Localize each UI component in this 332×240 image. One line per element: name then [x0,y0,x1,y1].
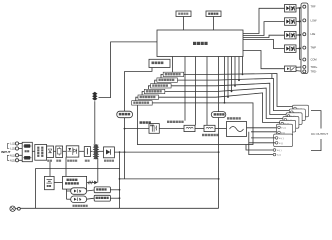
wire to group7 V+ [251,137,275,139]
current detect label [167,121,184,123]
DC output group 5 box [289,109,305,121]
input terminal N(1) [10,153,22,157]
transformer T1 secondary [97,145,98,159]
overvoltage detect label #2 [138,95,159,99]
switch box SW1 [176,11,191,17]
input terminal L(1) [10,142,22,146]
svg-text:V+( ): V+( ) [279,138,284,140]
fuse box F1 [22,142,32,161]
earth ground symbol [10,206,15,211]
DC OUTPUT label [311,132,328,136]
wire B to C [54,150,56,152]
staircase connector 2 [136,97,138,103]
aux supply vertical line [124,71,126,111]
DC output group 3 terminals [284,119,292,127]
photocoupler PC2 [285,18,297,26]
staircase connector 6 [161,74,163,80]
svg-text:L(1): L(1) [10,142,15,146]
wire PC4 to TMP terminal [296,47,304,50]
output filter label [227,117,241,119]
svg-text:V-( ): V-( ) [277,155,281,157]
COM bus junction 4 [299,48,301,50]
svg-text:DC OUTPUT: DC OUTPUT [311,132,328,136]
wire to pc1 [67,190,71,192]
run display box [149,59,170,67]
wire converter to choke1 [159,128,184,130]
label TRD- [311,69,317,73]
terminal TMP [303,46,306,49]
DC output group 6 terminals [294,107,302,115]
wire choke2 to output filter [215,128,227,130]
photocoupler PC7 [71,196,87,203]
aux supply line below box [124,118,126,129]
overvoltage detect wire #4 [171,83,286,114]
label under C [56,160,61,162]
wire PC2 to LOW terminal [296,21,304,22]
staircase connector 4 [148,86,150,92]
junction pin 9 [234,85,236,87]
DC output group 7 box [274,134,293,147]
rectifier box B [47,146,54,158]
label COM [311,58,317,62]
label under E [85,160,90,162]
control box pin 9 [234,57,236,86]
overvoltage detect label #6 [163,72,184,76]
staircase connector 5 [155,80,157,86]
wire D to E [79,150,85,152]
wire control to PC5 TRD [243,51,285,69]
wire vdet to enclosure edge [110,189,119,191]
wire ovdet to enclosure edge [110,197,119,199]
photocoupler PC3 [285,31,297,39]
rectifier output bus [114,151,218,153]
control box pin 5 [218,57,220,209]
drive output arrow [87,181,98,185]
wire from control box top to switch box [183,17,185,31]
DC output group 5 terminals [291,111,299,119]
label TRF [311,5,316,9]
open terminal pair bracket [246,143,273,155]
junction bus at rail line [218,151,220,153]
junction pin 7 [227,96,229,98]
wire from control box top to display box [213,17,215,31]
wire transformer aux to arrow [97,159,99,183]
transformer T1 core [95,144,96,159]
overvoltage detect box 2 [94,195,110,201]
drive circuit box [63,176,87,189]
junction pin 11 [242,74,244,76]
DC OUTPUT bracket top [311,111,321,129]
wire transformer to rectifier G [98,150,103,152]
wire to group7 V- [249,132,275,143]
photocoupler PC4 [285,45,297,53]
staircase connector 1 [132,102,138,104]
control box pin 7 [227,57,229,98]
overvoltage detect label #3 [144,89,165,93]
junction enclosure [119,189,121,199]
input terminal L(2) [10,147,22,151]
battery charge feed [119,151,121,168]
stabilizer label [140,121,151,124]
input pair bracket L [7,144,9,149]
DC output group 6 box [293,105,309,117]
converter symbol [150,125,156,132]
surge arrester Z1 [92,92,97,101]
wire drive to photocouplers [66,189,68,199]
wire control box left to arrester [99,42,158,98]
svg-text:TRD-: TRD- [311,69,317,73]
svg-text:V+( ): V+( ) [277,150,282,152]
control box pin 3 [195,57,197,126]
junction aux to converter input [124,128,126,130]
staircase connector 3 [142,92,144,98]
terminal LFE [303,33,306,36]
junction pin 8 [231,91,233,93]
voltage detect box [211,112,226,118]
voltage detect circuit label [202,134,219,136]
wire PC5 return [271,74,273,79]
label under B [47,160,52,162]
converter box T2 [149,124,159,134]
svg-text:TMP: TMP [311,46,317,50]
wire E to transformer [91,150,93,152]
input pair bracket N [7,155,9,160]
switching box D [66,146,79,157]
COM bus junction 1 [299,7,301,9]
DC output group 7 terminals [275,137,284,145]
wire filter to V+1 [247,127,280,129]
wire row to battery [49,162,51,177]
fuse symbols [23,145,31,160]
wire control to PC1 [243,8,285,33]
overvoltage detect label #1 [132,101,153,105]
wire noise filter out [46,150,48,152]
overvoltage detect wire #3 [165,88,283,118]
wire pc1 to voltage detect [87,190,95,191]
svg-text:V+( ): V+( ) [281,128,286,130]
battery symbol [47,180,53,188]
COM bus vertical [299,8,301,59]
rectifier box G [104,147,115,158]
terminal TRD- [303,70,306,73]
box C [56,146,63,158]
svg-text:TRD+: TRD+ [311,65,318,69]
wire PC3 to LFE terminal [296,33,304,36]
open terminal V+ [273,149,282,152]
wire PC5 to TRD+ terminal [296,66,304,68]
wire control to PC2 [243,22,285,36]
battery link line [119,178,220,180]
bottom ground rail [20,207,218,209]
DC output group 4 box [286,113,302,125]
overvoltage detect wire #2 [159,93,280,123]
wire arrester to transformer [94,101,96,144]
output filter symbol [230,127,244,132]
overvoltage detect label #4 [151,84,172,88]
wire C to D [63,150,67,152]
svg-text:COM: COM [311,58,317,62]
terminal COM [303,58,306,61]
control box pin 6 [224,57,226,103]
open terminal V- [273,153,281,156]
control box pin 4 [206,57,208,126]
photocoupler PC5 [285,66,297,72]
output filter box [227,122,247,137]
wire row to drive [65,157,67,176]
wire pc2 to overvoltage detect [87,198,95,199]
switching symbols [68,148,77,156]
control circuit label [193,42,208,45]
label LFE [311,32,316,36]
DC output group 3 box [283,117,299,129]
wire fuse to noise filter [32,150,35,152]
wire control to PC4 [243,40,285,49]
overvoltage detect wire #6 [184,74,293,107]
wire PC5 to TRD- terminal [296,70,304,73]
COM bus junction 2 [299,21,301,23]
overvoltage detect wire #5 [177,78,289,110]
photocoupler label [73,205,88,207]
terminal LOW [303,19,306,22]
DC OUTPUT bracket bottom [311,139,321,151]
terminal TRD+ [303,65,306,68]
DC output group 1 box [277,124,293,136]
svg-text:L(2): L(2) [10,147,15,151]
wire choke1 to choke2 [195,128,204,130]
DC output group 2 box [280,120,296,132]
photocoupler PC1 [285,5,297,13]
aux line down [124,129,126,179]
svg-text:V-( ): V-( ) [279,143,283,145]
aux power supply box [117,111,133,118]
label TMP [311,46,317,50]
svg-text:N(2): N(2) [10,158,15,162]
wire PC1 to TRF terminal [296,7,304,8]
svg-text:N(1): N(1) [10,153,15,157]
label LOW [311,18,317,22]
alarm terminal block [301,3,308,74]
control box pin 11 [242,57,244,75]
wire to pc2 [67,198,71,200]
input terminal N(2) [10,158,22,162]
display box DSP1 [206,11,221,17]
wire aux line to converter [125,128,150,130]
choke L1 box [184,125,195,131]
rectifier G symbol [106,149,111,154]
control box pin 10 [238,57,240,81]
input label [1,150,10,154]
DC output group 2 terminals [281,122,289,130]
control box pin 1 [172,57,174,73]
control circuit box U1 [157,30,243,57]
terminal TRF [303,5,306,8]
label TRD+ [311,65,318,69]
control box pin 2 [184,57,186,121]
battery box BT1 [45,176,55,189]
control box pin 8 [231,57,233,92]
wire to V-1 [251,131,279,133]
COM bus junction 3 [299,34,301,36]
wire control to PC3 [243,35,285,37]
channel 1 box [137,103,253,145]
label under D [67,160,77,162]
svg-text:TRF: TRF [311,5,316,9]
transformer T1 primary [94,145,95,159]
svg-text:INPUT: INPUT [1,150,10,154]
junction aux at rectifier bus [124,151,126,153]
label under G [104,160,114,162]
wire converter input [149,128,152,130]
voltage detect box 2 [94,187,110,193]
photocoupler PC6 [71,188,87,195]
drive circuit label [65,179,79,185]
junction pin 10 [238,79,240,81]
wire battery to drive box [54,182,62,184]
box E [84,147,90,157]
ground terminal [15,207,20,210]
svg-text:LOW: LOW [311,18,317,22]
noise filter box [35,145,47,161]
DC output group 1 terminals [278,126,286,134]
wire run display to aux line [125,68,153,72]
choke L2 box [204,125,215,131]
wire COM bus to COM terminal [300,59,304,61]
battery section enclosure [36,169,120,209]
junction pin 6 [224,102,226,104]
overvoltage detect label #5 [157,78,178,82]
DC output group 4 terminals [287,115,295,123]
svg-text:LFE: LFE [311,32,316,36]
